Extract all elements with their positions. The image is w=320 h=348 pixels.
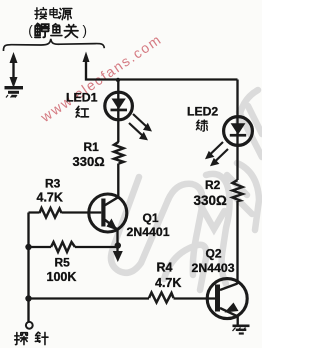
svg-text:4.7K: 4.7K — [37, 191, 63, 205]
svg-text:R1: R1 — [84, 140, 100, 154]
svg-text:R5: R5 — [55, 255, 71, 269]
svg-text:R3: R3 — [45, 176, 61, 190]
svg-text:2N4403: 2N4403 — [192, 261, 235, 275]
svg-text:330Ω: 330Ω — [73, 154, 105, 169]
svg-text:330Ω: 330Ω — [194, 193, 228, 208]
svg-text:100K: 100K — [47, 270, 77, 284]
svg-text:LED1: LED1 — [66, 90, 98, 104]
svg-text:LED2: LED2 — [187, 104, 218, 118]
svg-text:(: ( — [28, 23, 33, 38]
svg-text:): ) — [83, 23, 88, 38]
svg-text:Q2: Q2 — [206, 247, 222, 261]
svg-text:Q1: Q1 — [143, 211, 159, 225]
svg-text:2N4401: 2N4401 — [127, 225, 170, 239]
svg-text:R2: R2 — [205, 178, 221, 192]
svg-text:R4: R4 — [157, 260, 173, 274]
svg-text:www.elecfans.com: www.elecfans.com — [37, 31, 165, 126]
svg-text:4.7K: 4.7K — [155, 276, 181, 290]
